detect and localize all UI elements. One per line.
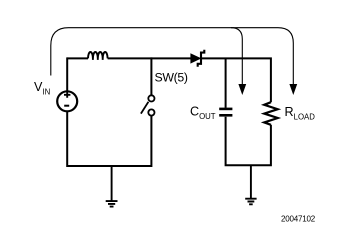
switch lever [141, 102, 149, 114]
arrowhead outer [289, 84, 297, 95]
wire Vin top branch [66, 57, 68, 90]
arrowhead inner [238, 84, 246, 95]
wire switch top riser [150, 57, 152, 95]
diode D1 triangle [190, 53, 201, 63]
switch SW bottom contact [148, 109, 154, 115]
current-loop arc inner [231, 28, 242, 85]
wire inductor to diode [108, 57, 191, 59]
switch SW top contact [148, 95, 154, 101]
wire Cout top riser [225, 58, 227, 107]
wire Cout bottom / bottom-right rail / Rload bottom riser [226, 117, 271, 166]
svg-text:COUT: COUT [190, 105, 216, 121]
resistor Rload zigzag [264, 102, 278, 125]
svg-text:VIN: VIN [34, 80, 50, 96]
ground left [106, 201, 118, 207]
svg-text:20047102: 20047102 [281, 215, 316, 224]
capacitor Cout bottom plate [219, 114, 232, 117]
capacitor Cout top plate [219, 108, 232, 111]
minus sign [64, 105, 69, 107]
ground stub left [111, 166, 113, 201]
ground stub right [250, 165, 252, 198]
wire top-left (Vin node to inductor) [67, 57, 88, 59]
svg-text:RLOAD: RLOAD [285, 105, 316, 121]
voltage source V1 circle [57, 91, 77, 111]
ground right [245, 199, 256, 205]
wire diode to Rload corner [202, 58, 271, 102]
current-loop arc outer [51, 28, 293, 85]
svg-text:SW(5): SW(5) [155, 71, 188, 85]
plus sign [64, 92, 70, 98]
inductor [88, 52, 108, 60]
diode D1 schottky cathode bar [198, 50, 205, 67]
wire Vin bottom / bottom-left rail / switch bottom riser [67, 112, 151, 166]
